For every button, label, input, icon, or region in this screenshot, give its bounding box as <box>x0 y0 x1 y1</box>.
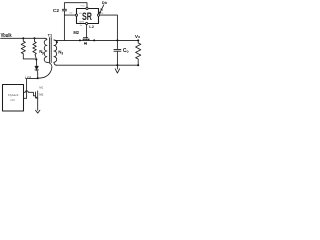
pin GATE inside <box>79 21 85 24</box>
node Vbulk label <box>1 33 12 39</box>
node junction dot B <box>34 37 36 39</box>
node Vo dot <box>137 39 139 41</box>
diode Db leader <box>100 5 104 13</box>
terminal right <box>97 14 99 16</box>
svg-text:VD: VD <box>69 13 72 15</box>
node LCS label <box>25 76 31 80</box>
svg-text:VD: VD <box>79 13 82 15</box>
svg-text:ctrl: ctrl <box>10 98 14 102</box>
transistor M1 <box>35 92 37 98</box>
pin Gs below <box>80 25 83 27</box>
label Db <box>102 1 108 5</box>
op-amp U1 controller box <box>3 85 24 112</box>
svg-text:GATE: GATE <box>79 21 85 24</box>
label L2 <box>89 24 94 29</box>
wire secondary top bend <box>54 39 56 42</box>
diode D1 <box>35 60 37 66</box>
svg-text:Db: Db <box>102 1 108 5</box>
transistor M2 <box>83 37 87 39</box>
node drain junction dot <box>37 77 39 79</box>
svg-text:Gs: Gs <box>80 25 83 27</box>
terminal bottom <box>86 22 88 24</box>
wire input rail <box>1 37 45 39</box>
capacitor Csn (drawn as tight zigzag) <box>33 38 37 59</box>
terminal left <box>75 14 77 16</box>
op-amp U2 SR controller box <box>77 9 99 24</box>
label M1 upper <box>39 85 43 89</box>
node output junction dot <box>116 39 118 41</box>
wire clamp bottom <box>23 58 36 61</box>
wire LCS sense <box>24 78 38 98</box>
label VD pin <box>69 13 72 15</box>
transformer T1 primary winding Np <box>44 38 47 62</box>
resistor Rload <box>136 40 141 65</box>
svg-text:M1: M1 <box>39 93 43 97</box>
label Co <box>123 48 129 54</box>
ground primary <box>36 110 40 113</box>
transformer T1 label <box>48 32 53 37</box>
wire VS to output <box>100 15 118 40</box>
label Np <box>39 49 44 55</box>
diode M2 body <box>84 43 86 45</box>
label N3 <box>58 49 63 55</box>
svg-text:Flyback: Flyback <box>8 93 19 97</box>
label Vo <box>135 34 140 40</box>
wire secondary rail <box>56 39 139 41</box>
pin VS right <box>100 13 103 15</box>
node M2 drain dot <box>93 39 95 41</box>
ground secondary <box>115 65 119 73</box>
label M2 <box>73 30 79 35</box>
capacitor C2 <box>62 3 87 41</box>
svg-text:M2: M2 <box>73 30 79 35</box>
wire primary bottom curve <box>38 62 52 78</box>
svg-text:LCS: LCS <box>25 76 31 80</box>
node M2 source dot <box>79 39 81 41</box>
transformer core <box>50 38 52 63</box>
wire SR gate to M2 <box>86 25 88 38</box>
transformer T1 secondary winding N3 <box>54 40 57 62</box>
pin VD inside <box>79 13 82 15</box>
label M1 <box>39 93 43 97</box>
node ground junction dot <box>116 64 118 66</box>
svg-text:C2: C2 <box>53 8 59 14</box>
wire diode to drain <box>37 70 38 78</box>
node junction dot A <box>22 37 24 39</box>
svg-text:M1: M1 <box>39 85 43 89</box>
node clamp junction <box>35 59 37 61</box>
svg-text:L2: L2 <box>89 24 94 29</box>
svg-text:Co: Co <box>123 48 129 54</box>
terminal top <box>86 7 88 9</box>
svg-text:VCC: VCC <box>80 6 85 8</box>
wire secondary bottom bend <box>54 62 57 65</box>
resistor Rsn <box>21 38 25 58</box>
wire gate drive with hop <box>24 91 36 96</box>
wire bottom rail <box>57 64 139 66</box>
node polarity dot <box>56 41 58 43</box>
svg-text:Vo: Vo <box>135 34 140 40</box>
node load bottom dot <box>137 64 139 66</box>
capacitor Co <box>114 40 121 65</box>
wire VD to SR <box>64 14 75 16</box>
pin VCC top <box>80 6 85 8</box>
